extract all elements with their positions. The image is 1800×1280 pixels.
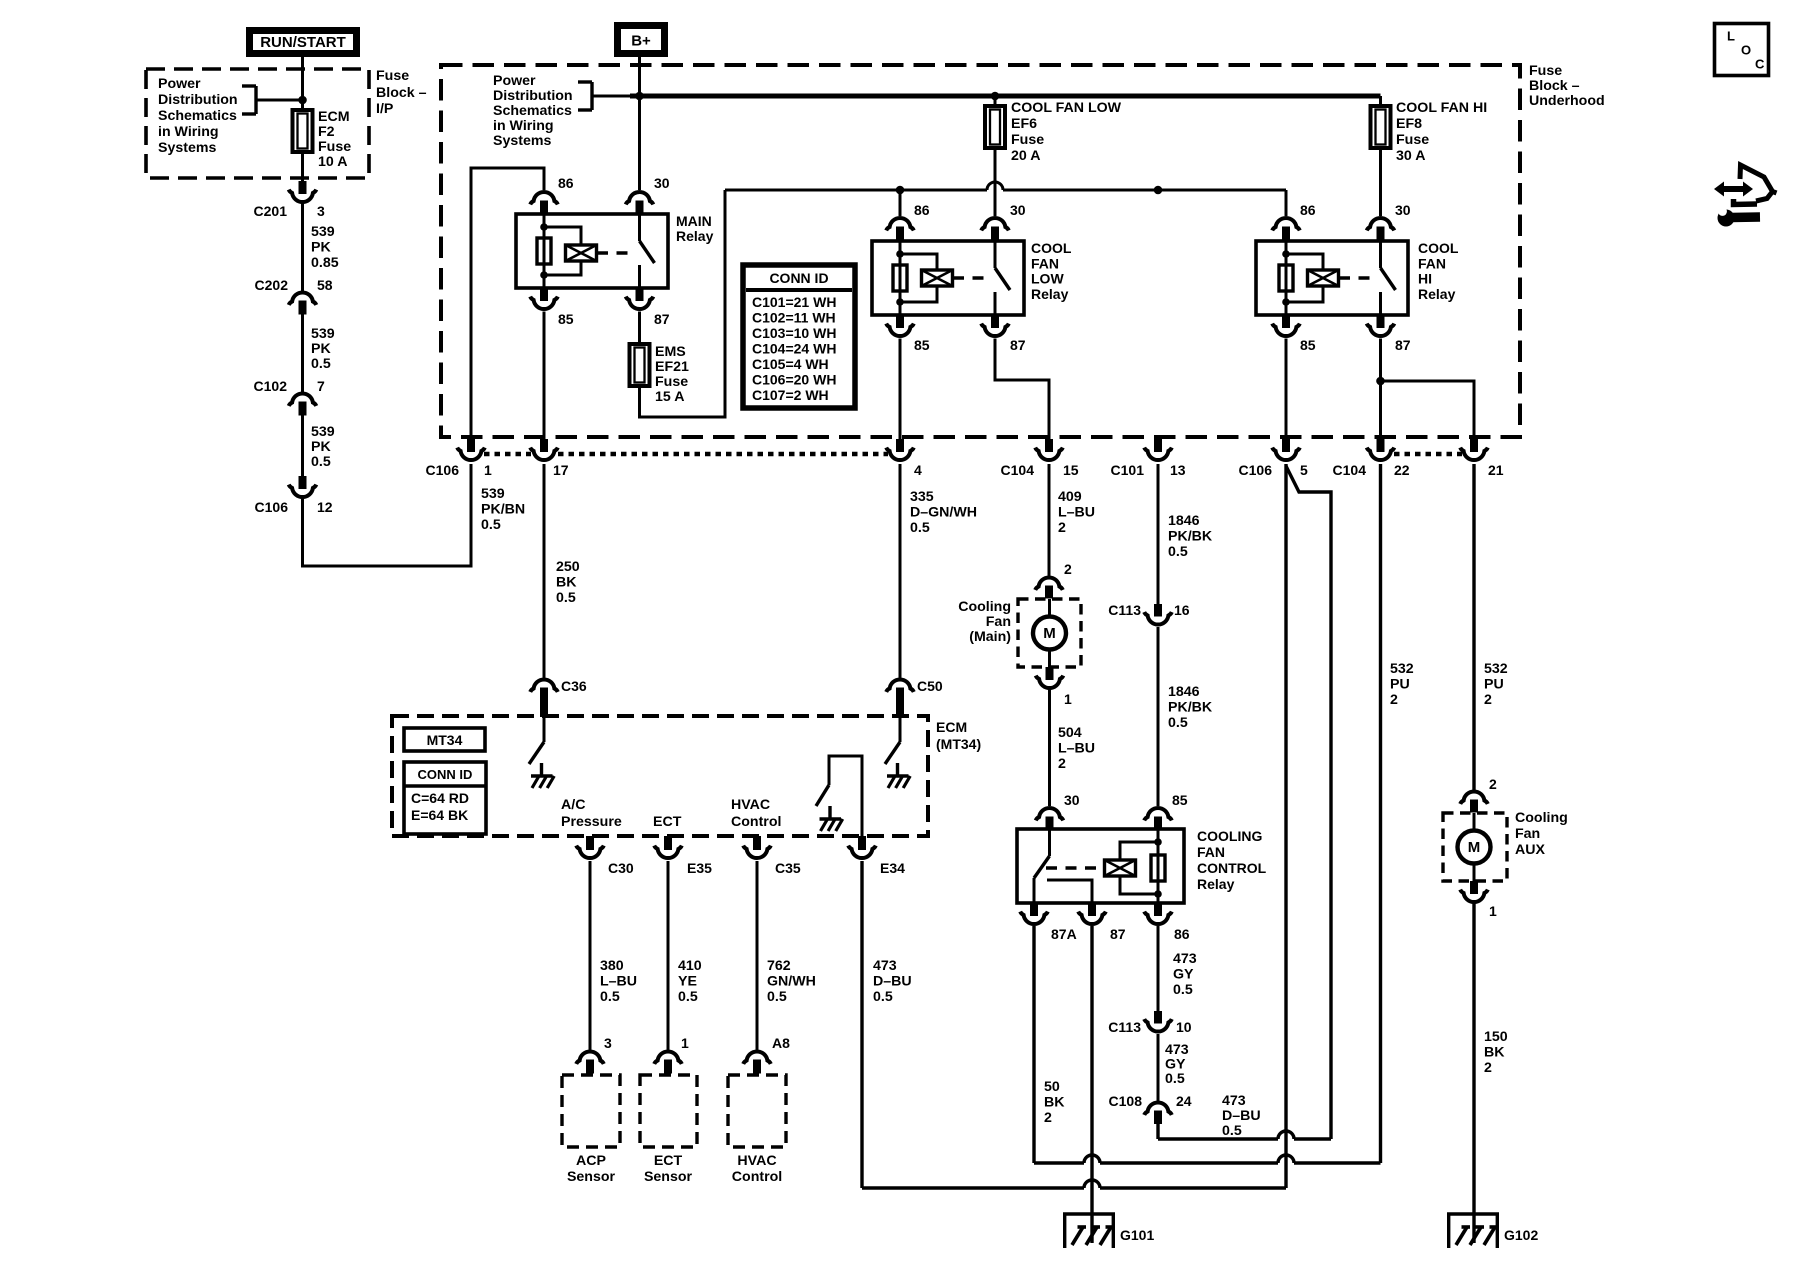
svg-text:EF21: EF21 xyxy=(655,359,689,375)
wire 473 GY 0.5 (86 to C113-10) xyxy=(1157,926,1160,1011)
wire LOW 87 to C104-15 xyxy=(995,339,1049,441)
connector link dotted C106 xyxy=(484,452,531,457)
svg-text:C106: C106 xyxy=(426,462,460,478)
wire HI 87 branch to pin 21 xyxy=(1381,381,1475,440)
wire LOW 85 to C106-4 xyxy=(899,339,902,441)
svg-text:2: 2 xyxy=(1484,692,1492,708)
svg-text:0.5: 0.5 xyxy=(910,520,930,536)
svg-text:CONTROL: CONTROL xyxy=(1197,860,1267,876)
relay MAIN coil xyxy=(543,214,546,288)
relay COOL FAN HI coil link dashes xyxy=(1339,276,1370,279)
svg-text:0.5: 0.5 xyxy=(1222,1123,1242,1139)
svg-text:C202: C202 xyxy=(255,277,289,293)
svg-text:22: 22 xyxy=(1394,462,1410,478)
relay COOL FAN LOW box xyxy=(872,241,1024,315)
relay MAIN - pin 85 connector xyxy=(540,288,548,301)
svg-text:Relay: Relay xyxy=(1197,876,1235,892)
svg-text:2: 2 xyxy=(1484,1060,1492,1076)
wire 473 D-BU (pin5 leg) xyxy=(1284,464,1287,1188)
connector C102 pin 7 xyxy=(289,393,317,405)
connector C106 pin 1 xyxy=(467,439,475,452)
junction coil bus at cool fan low 86 xyxy=(896,186,905,195)
fuse COOL FAN HI EF8 30A xyxy=(1379,96,1382,106)
svg-text:532: 532 xyxy=(1390,661,1414,677)
svg-text:Distribution: Distribution xyxy=(158,92,238,108)
motor M cooling fan main xyxy=(1033,617,1066,650)
relay COOLING FAN CONTROL switch xyxy=(1048,829,1051,856)
svg-text:58: 58 xyxy=(317,277,333,293)
svg-text:FAN: FAN xyxy=(1197,844,1225,860)
svg-text:AUX: AUX xyxy=(1515,842,1545,858)
motor M cooling fan aux xyxy=(1458,831,1491,864)
relay COOLING FAN CONTROL - pin 87 connector xyxy=(1088,903,1096,916)
relay COOLING FAN CONTROL - pin 85 connector xyxy=(1144,808,1172,820)
svg-text:Cooling: Cooling xyxy=(1515,810,1568,826)
sensor box ACP xyxy=(562,1075,620,1147)
svg-text:504: 504 xyxy=(1058,725,1082,741)
relay MAIN - pin 86 connector xyxy=(530,192,558,204)
wire F2 to C201 xyxy=(301,152,304,181)
svg-text:Underhood: Underhood xyxy=(1529,93,1605,109)
svg-text:30: 30 xyxy=(1395,202,1411,218)
svg-text:473: 473 xyxy=(1222,1093,1246,1109)
relay COOL FAN HI coil xyxy=(1285,241,1288,315)
svg-text:Fuse: Fuse xyxy=(1011,132,1044,148)
svg-text:C107=2 WH: C107=2 WH xyxy=(752,387,829,403)
svg-text:539: 539 xyxy=(311,326,335,342)
svg-text:L–BU: L–BU xyxy=(1058,505,1095,521)
svg-text:2: 2 xyxy=(1044,1110,1052,1126)
svg-text:ECM: ECM xyxy=(318,109,350,125)
junction coil bus at C101-13 xyxy=(1154,186,1163,195)
svg-text:L–BU: L–BU xyxy=(1058,741,1095,757)
relay COOL FAN LOW - pin 30 connector xyxy=(981,218,1009,230)
svg-text:4: 4 xyxy=(914,462,922,478)
svg-text:PK/BK: PK/BK xyxy=(1168,700,1213,716)
connector C106 pin 4 xyxy=(896,439,904,452)
svg-text:C106: C106 xyxy=(255,499,289,515)
bracket to power distribution note (underhood) xyxy=(578,80,592,83)
svg-text:30 A: 30 A xyxy=(1396,148,1425,164)
svg-text:0.5: 0.5 xyxy=(556,590,576,606)
svg-text:380: 380 xyxy=(600,958,624,974)
relay COOL FAN LOW - pin 85 connector xyxy=(896,315,904,328)
wire 250 BK 0.5 (pin17 to C36) xyxy=(543,464,546,678)
svg-text:M: M xyxy=(1468,839,1481,856)
svg-text:1: 1 xyxy=(1064,691,1072,707)
connector C108 pin 24 xyxy=(1144,1102,1172,1114)
wire 539 PK/BN 0.5 (pin1 leg) xyxy=(470,464,473,566)
relay MAIN coil link dashes xyxy=(597,251,628,254)
wire 409 L-BU 2 (pin15 to fan) xyxy=(1048,464,1051,576)
svg-text:Relay: Relay xyxy=(1031,286,1069,302)
svg-text:C101=21 WH: C101=21 WH xyxy=(752,294,836,310)
svg-text:410: 410 xyxy=(678,958,702,974)
connector C101 pin 13 xyxy=(1154,439,1162,452)
svg-text:Relay: Relay xyxy=(676,228,714,244)
svg-text:B+: B+ xyxy=(631,33,651,50)
svg-text:10 A: 10 A xyxy=(318,154,347,170)
wire HI 87 to C104-22 xyxy=(1379,339,1382,441)
relay MAIN - wire 86 feed from C106-1 xyxy=(471,168,544,437)
wire 335 D-GN/WH 0.5 (pin4 to C50) xyxy=(899,464,902,678)
junction B+ bus at main relay xyxy=(635,92,644,101)
svg-text:LOW: LOW xyxy=(1031,271,1064,287)
svg-text:O: O xyxy=(1741,43,1751,58)
svg-text:C108: C108 xyxy=(1109,1093,1143,1109)
svg-text:C104: C104 xyxy=(1001,462,1035,478)
svg-text:Control: Control xyxy=(732,1169,782,1185)
svg-text:85: 85 xyxy=(558,311,574,327)
svg-text:2: 2 xyxy=(1390,692,1398,708)
fuse block underhood dashed box xyxy=(441,65,1520,437)
svg-text:C106=20 WH: C106=20 WH xyxy=(752,372,836,388)
svg-text:0.5: 0.5 xyxy=(1165,1071,1185,1087)
svg-text:PK: PK xyxy=(311,439,331,455)
relay COOL FAN LOW coil xyxy=(899,241,902,315)
svg-text:C113: C113 xyxy=(1108,602,1141,618)
svg-text:2: 2 xyxy=(1489,776,1497,792)
relay COOLING FAN CONTROL switch branch to 87 xyxy=(1047,880,1092,903)
wire 539 PK 0.5 (C202-C102) xyxy=(301,315,304,393)
svg-text:12: 12 xyxy=(317,499,333,515)
svg-text:COOL FAN LOW: COOL FAN LOW xyxy=(1011,100,1122,116)
fuse block I/P dashed box xyxy=(146,69,369,178)
relay COOL FAN HI - pin 86 connector xyxy=(1285,190,1288,216)
icon navigation arrow and wrench xyxy=(1740,165,1777,193)
connector C106 pin 17 xyxy=(540,439,548,452)
svg-text:85: 85 xyxy=(1172,792,1188,808)
connector C106 pin 12 xyxy=(299,476,307,489)
svg-text:Fuse: Fuse xyxy=(655,374,688,390)
svg-text:(Main): (Main) xyxy=(969,629,1011,645)
svg-text:0.5: 0.5 xyxy=(767,989,787,1005)
svg-text:85: 85 xyxy=(1300,337,1316,353)
wire 87A to pin22 junction xyxy=(1032,926,1035,1163)
svg-text:409: 409 xyxy=(1058,489,1082,505)
wire pin5 branch to C108 loop xyxy=(1286,466,1331,1139)
wire 380 L-BU 0.5 (C30 to ACP) xyxy=(589,861,592,1050)
relay COOLING FAN CONTROL box xyxy=(1017,829,1184,903)
wire EF6 feed xyxy=(994,96,997,106)
svg-text:C50: C50 xyxy=(917,678,943,694)
svg-text:in Wiring: in Wiring xyxy=(493,118,554,134)
svg-text:HVAC: HVAC xyxy=(737,1153,776,1169)
relay COOLING FAN CONTROL coil xyxy=(1157,829,1160,903)
svg-text:PK: PK xyxy=(311,341,331,357)
power source box B+ xyxy=(618,26,665,54)
svg-text:Systems: Systems xyxy=(493,133,551,149)
svg-text:539: 539 xyxy=(481,486,505,502)
svg-text:87: 87 xyxy=(654,311,670,327)
ECM internal switch at C36 xyxy=(543,718,546,742)
connector pin 21 xyxy=(1470,439,1478,452)
svg-text:87A: 87A xyxy=(1051,926,1077,942)
relay COOL FAN HI - pin 85 connector xyxy=(1282,315,1290,328)
ECM CONN ID box xyxy=(404,762,486,834)
svg-text:C105=4 WH: C105=4 WH xyxy=(752,356,829,372)
svg-text:1846: 1846 xyxy=(1168,513,1200,529)
svg-text:86: 86 xyxy=(558,175,574,191)
wire EF21 to coil bus xyxy=(640,190,726,417)
wire 150 BK 2 (aux fan to G102) xyxy=(1472,904,1475,1244)
connector link dotted C104 xyxy=(1394,452,1462,457)
svg-text:Block –: Block – xyxy=(376,85,427,101)
svg-text:3: 3 xyxy=(317,203,325,219)
connector C36 xyxy=(530,679,558,691)
wire 532 PU 2 (pin22 leg) xyxy=(1379,464,1382,1163)
svg-text:0.5: 0.5 xyxy=(600,989,620,1005)
svg-text:86: 86 xyxy=(914,202,930,218)
bus B+ horizontal xyxy=(630,94,1381,99)
connector cooling fan main pin 1 xyxy=(1046,667,1054,680)
svg-text:2: 2 xyxy=(1058,520,1066,536)
svg-text:473: 473 xyxy=(1173,951,1197,967)
svg-text:I/P: I/P xyxy=(376,101,393,117)
wire RUN/START to fuse F2 xyxy=(301,57,304,110)
wire 762 GN/WH 0.5 (C35 to HVAC) xyxy=(756,861,759,1050)
svg-text:50: 50 xyxy=(1044,1079,1060,1095)
fuse F2 ECM 10A xyxy=(293,110,313,152)
svg-text:HVAC: HVAC xyxy=(731,797,770,813)
wire HI 85 to C106-5 xyxy=(1285,339,1288,441)
svg-text:24: 24 xyxy=(1176,1093,1192,1109)
svg-text:FAN: FAN xyxy=(1031,255,1059,271)
junction at F2 feed xyxy=(298,96,307,105)
svg-text:L: L xyxy=(1727,29,1735,44)
svg-text:0.5: 0.5 xyxy=(1168,715,1188,731)
svg-text:335: 335 xyxy=(910,489,934,505)
svg-text:RUN/START: RUN/START xyxy=(260,34,346,51)
svg-text:Distribution: Distribution xyxy=(493,88,573,104)
svg-text:Fuse: Fuse xyxy=(376,68,409,84)
svg-text:86: 86 xyxy=(1174,926,1190,942)
svg-text:C101: C101 xyxy=(1111,462,1145,478)
svg-text:C35: C35 xyxy=(775,860,801,876)
wire 473 D-BU 0.5 (E34 run) xyxy=(862,1186,1084,1189)
svg-text:0.5: 0.5 xyxy=(311,454,331,470)
svg-text:CONN ID: CONN ID xyxy=(769,270,828,286)
relay COOL FAN HI - pin 30 connector xyxy=(1367,218,1395,230)
svg-text:Schematics: Schematics xyxy=(158,108,237,124)
svg-text:(MT34): (MT34) xyxy=(936,736,981,752)
svg-text:COOL: COOL xyxy=(1418,240,1459,256)
connector C106 pin 5 xyxy=(1282,439,1290,452)
svg-text:539: 539 xyxy=(311,424,335,440)
relay COOL FAN LOW - pin 87 connector xyxy=(991,315,999,328)
svg-text:PU: PU xyxy=(1484,677,1504,693)
cooling fan aux dashed box xyxy=(1443,813,1507,881)
wire C106-12 to C106-1 xyxy=(303,465,472,566)
svg-text:Power: Power xyxy=(493,73,536,89)
svg-text:Schematics: Schematics xyxy=(493,103,572,119)
svg-text:C106: C106 xyxy=(1239,462,1273,478)
svg-text:M: M xyxy=(1043,625,1056,642)
svg-text:ACP: ACP xyxy=(576,1153,606,1169)
wire B+ drop xyxy=(638,57,641,190)
svg-text:E=64 BK: E=64 BK xyxy=(411,807,468,823)
wire EF8 to relay 30 xyxy=(1379,148,1382,216)
svg-text:13: 13 xyxy=(1170,462,1186,478)
svg-text:YE: YE xyxy=(678,974,697,990)
svg-text:C: C xyxy=(1755,57,1765,72)
table CONN ID xyxy=(743,265,855,408)
wire 1846 PK/BK 0.5 (pin13 to C113) xyxy=(1157,464,1160,604)
svg-text:D–BU: D–BU xyxy=(1222,1108,1261,1124)
relay COOL FAN HI box xyxy=(1256,241,1408,315)
svg-text:87: 87 xyxy=(1010,337,1026,353)
connector C113 pin 10 xyxy=(1154,1011,1162,1024)
svg-text:E35: E35 xyxy=(687,860,712,876)
svg-text:3: 3 xyxy=(604,1035,612,1051)
svg-text:30: 30 xyxy=(1010,202,1026,218)
wire 473 D-BU 0.5 (C108 to pin5 branch) xyxy=(1156,1124,1159,1139)
svg-text:Sensor: Sensor xyxy=(644,1169,693,1185)
svg-text:15: 15 xyxy=(1063,462,1079,478)
relay MAIN switch xyxy=(638,214,641,241)
svg-text:COOL: COOL xyxy=(1031,240,1072,256)
svg-text:762: 762 xyxy=(767,958,791,974)
svg-text:21: 21 xyxy=(1488,462,1504,478)
svg-text:1: 1 xyxy=(1489,903,1497,919)
svg-text:532: 532 xyxy=(1484,661,1508,677)
svg-text:C36: C36 xyxy=(561,678,587,694)
svg-text:EF6: EF6 xyxy=(1011,116,1037,132)
svg-text:30: 30 xyxy=(1064,792,1080,808)
icon LOC box xyxy=(1715,24,1769,76)
svg-text:Fan: Fan xyxy=(1515,826,1540,842)
junction B+ bus at EF6 xyxy=(991,92,1000,101)
svg-text:D–GN/WH: D–GN/WH xyxy=(910,505,977,521)
svg-text:0.5: 0.5 xyxy=(311,356,331,372)
connector C202 pin 58 xyxy=(289,292,317,304)
svg-text:2: 2 xyxy=(1058,756,1066,772)
svg-text:C201: C201 xyxy=(254,203,288,219)
svg-text:PK: PK xyxy=(311,240,331,256)
svg-text:10: 10 xyxy=(1176,1019,1192,1035)
svg-text:Power: Power xyxy=(158,76,201,92)
svg-text:Relay: Relay xyxy=(1418,286,1456,302)
svg-text:ECT: ECT xyxy=(653,814,682,830)
ECM internal ground HVAC xyxy=(828,806,831,819)
power source box RUN/START xyxy=(250,31,357,54)
relay COOLING FAN CONTROL - pin 86 connector xyxy=(1154,903,1162,916)
ECM MT34 box xyxy=(404,728,485,751)
svg-text:87: 87 xyxy=(1395,337,1411,353)
svg-text:C102=11 WH: C102=11 WH xyxy=(752,310,836,326)
svg-text:COOL FAN HI: COOL FAN HI xyxy=(1396,100,1487,116)
wire 539 PK 0.85 xyxy=(301,204,304,292)
svg-text:G101: G101 xyxy=(1120,1227,1154,1243)
svg-text:0.5: 0.5 xyxy=(873,989,893,1005)
fuse EMS EF21 15A xyxy=(630,344,650,386)
svg-text:1: 1 xyxy=(484,462,492,478)
wire 473 GY 0.5 (C113-10 to C108) xyxy=(1157,1034,1160,1101)
svg-text:ECT: ECT xyxy=(654,1153,683,1169)
wire MAIN 87 to EF21 xyxy=(638,312,641,345)
ECM internal ground at C36 xyxy=(540,763,543,776)
svg-text:0.5: 0.5 xyxy=(1168,544,1188,560)
svg-text:D–BU: D–BU xyxy=(873,974,912,990)
sensor box HVAC control xyxy=(728,1075,786,1147)
relay COOLING FAN CONTROL - pin 30 connector xyxy=(1036,808,1064,820)
relay MAIN - pin 30 connector xyxy=(626,192,654,204)
svg-text:Fuse: Fuse xyxy=(1396,132,1429,148)
svg-text:in Wiring: in Wiring xyxy=(158,124,219,140)
svg-text:CONN ID: CONN ID xyxy=(418,767,473,782)
svg-text:PU: PU xyxy=(1390,677,1410,693)
svg-text:MT34: MT34 xyxy=(427,732,463,748)
svg-text:PK/BN: PK/BN xyxy=(481,502,525,518)
svg-text:ECM: ECM xyxy=(936,719,967,735)
svg-text:G102: G102 xyxy=(1504,1227,1538,1243)
svg-text:87: 87 xyxy=(1110,926,1126,942)
svg-text:85: 85 xyxy=(914,337,930,353)
ECM internal switch at C50 xyxy=(899,718,902,742)
svg-text:BK: BK xyxy=(1044,1095,1065,1111)
svg-text:BK: BK xyxy=(556,575,577,591)
svg-text:539: 539 xyxy=(311,224,335,240)
svg-text:1846: 1846 xyxy=(1168,684,1200,700)
svg-text:Pressure: Pressure xyxy=(561,814,622,830)
svg-text:86: 86 xyxy=(1300,202,1316,218)
relay COOL FAN HI switch xyxy=(1379,241,1382,268)
svg-text:EF8: EF8 xyxy=(1396,116,1422,132)
bracket to power distribution note (I/P) xyxy=(242,84,256,87)
svg-text:250: 250 xyxy=(556,559,580,575)
svg-text:Fuse: Fuse xyxy=(318,139,351,155)
svg-text:F2: F2 xyxy=(318,124,335,140)
cooling fan main dashed box xyxy=(1018,599,1081,667)
wire MAIN 85 to C106-17 xyxy=(543,312,546,441)
wire 410 YE 0.5 (E35 to ECT) xyxy=(667,861,670,1050)
svg-text:17: 17 xyxy=(553,462,569,478)
svg-text:HI: HI xyxy=(1418,271,1432,287)
relay COOL FAN HI - pin 87 connector xyxy=(1377,315,1385,328)
svg-text:0.85: 0.85 xyxy=(311,255,339,271)
svg-text:C113: C113 xyxy=(1108,1019,1141,1035)
connector C35 xyxy=(753,836,761,850)
ground G101 xyxy=(1063,1212,1115,1215)
relay COOL FAN LOW coil link dashes xyxy=(953,276,984,279)
svg-text:Sensor: Sensor xyxy=(567,1169,616,1185)
relay COOL FAN LOW switch xyxy=(994,241,997,268)
wire 539 PK 0.5 (C102-C106) xyxy=(301,416,304,478)
wire 50 BK 2 (87 to G101) xyxy=(1090,926,1093,1243)
svg-text:15 A: 15 A xyxy=(655,389,684,405)
svg-text:Fan: Fan xyxy=(986,614,1011,630)
ECM internal ground at C50 xyxy=(896,763,899,776)
svg-text:C104=24 WH: C104=24 WH xyxy=(752,341,836,357)
wire 532 PU 2 (pin21 to aux fan) xyxy=(1472,464,1475,790)
connector C50 xyxy=(886,679,914,691)
svg-text:5: 5 xyxy=(1300,462,1308,478)
svg-text:0.5: 0.5 xyxy=(678,989,698,1005)
svg-text:20 A: 20 A xyxy=(1011,148,1040,164)
wire EF6 to relay 30 xyxy=(994,148,997,216)
ground G102 xyxy=(1447,1212,1499,1215)
relay MAIN box xyxy=(516,214,668,288)
relay COOL FAN LOW - pin 86 connector xyxy=(899,190,902,216)
svg-text:7: 7 xyxy=(317,378,325,394)
svg-text:C103=10 WH: C103=10 WH xyxy=(752,325,836,341)
svg-text:C104: C104 xyxy=(1333,462,1367,478)
svg-text:C30: C30 xyxy=(608,860,634,876)
svg-text:Control: Control xyxy=(731,814,781,830)
relay COOLING FAN CONTROL coil link dashes xyxy=(1046,866,1103,869)
svg-text:L–BU: L–BU xyxy=(600,974,637,990)
wire 504 L-BU 2 (fan to relay 30) xyxy=(1048,690,1051,807)
